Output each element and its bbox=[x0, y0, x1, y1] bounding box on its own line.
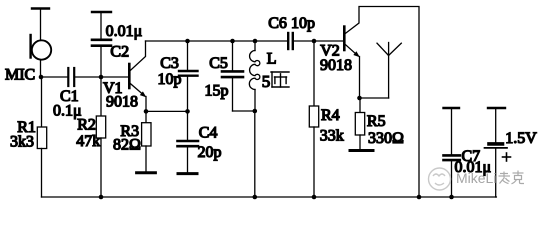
svg-text:15p: 15p bbox=[205, 83, 229, 100]
capacitor C6 bbox=[288, 33, 343, 49]
node C3 top bbox=[185, 39, 190, 44]
node C7 bottom rail bbox=[449, 195, 454, 200]
svg-text:5: 5 bbox=[262, 72, 271, 91]
capacitor C1 bbox=[68, 68, 74, 86]
watermark hanzi mai-ke drawn bbox=[499, 171, 525, 184]
supply terminal T-bar above MIC bbox=[32, 9, 49, 41]
svg-text:C2: C2 bbox=[110, 44, 129, 61]
svg-text:MIC: MIC bbox=[5, 67, 35, 84]
node C5 top bbox=[230, 39, 235, 44]
resistor R4 bbox=[309, 41, 318, 197]
capacitor C5 bbox=[222, 41, 255, 111]
svg-text:330Ω: 330Ω bbox=[368, 130, 404, 147]
supply terminal T-bar above C7 bbox=[444, 108, 460, 155]
svg-text:9018: 9018 bbox=[106, 94, 138, 111]
capacitor C7 bbox=[444, 155, 460, 197]
svg-text:R2: R2 bbox=[77, 117, 96, 134]
wire V1 emitter node to C3/C4 node bbox=[146, 110, 188, 112]
ground bar R3 bbox=[137, 171, 156, 174]
node A (mic/C1/R1 junction) bbox=[39, 75, 44, 80]
wire top rail from V1 collector to C6 bbox=[146, 40, 289, 42]
resistor R3 bbox=[142, 111, 151, 171]
svg-text:R4: R4 bbox=[321, 107, 340, 124]
label + (battery polarity) bbox=[503, 153, 511, 161]
resistor R5 bbox=[355, 98, 364, 149]
node R4 bottom rail bbox=[312, 195, 317, 200]
svg-text:10p: 10p bbox=[291, 15, 315, 32]
wire emitter node to antenna bbox=[360, 97, 389, 99]
supply terminal T-bar above battery bbox=[488, 108, 505, 142]
svg-text:33k: 33k bbox=[320, 128, 344, 145]
svg-text:47k: 47k bbox=[76, 133, 100, 150]
wire C1 to V1 base through node B bbox=[75, 76, 129, 78]
svg-text:L: L bbox=[267, 51, 277, 68]
resistor R1 bbox=[37, 77, 46, 197]
antenna bbox=[377, 43, 401, 99]
svg-text:C6: C6 bbox=[268, 15, 287, 32]
transistor V1 bbox=[129, 41, 146, 111]
svg-text:9018: 9018 bbox=[320, 57, 352, 74]
svg-text:R5: R5 bbox=[367, 113, 386, 130]
node LC tank / bottom rail bbox=[253, 195, 258, 200]
capacitor C2 bbox=[92, 40, 111, 77]
ground bar C4 bbox=[178, 172, 197, 175]
hanzi "za" (turns) drawn bbox=[271, 72, 289, 87]
capacitor C4 bbox=[178, 111, 199, 172]
wire LC tank to bottom rail bbox=[254, 111, 256, 197]
svg-text:C5: C5 bbox=[209, 55, 228, 72]
ground bar R5 bbox=[350, 149, 373, 152]
capacitor C3 bbox=[179, 41, 198, 111]
wire mic node to C1 bbox=[41, 76, 68, 78]
svg-text:MikeLi: MikeLi bbox=[456, 170, 496, 186]
svg-text:82Ω: 82Ω bbox=[113, 137, 141, 154]
battery GB 1.5V bbox=[485, 144, 508, 197]
bottom rail wire bbox=[42, 196, 497, 198]
transistor V2 bbox=[344, 7, 419, 198]
node V1 emitter bbox=[144, 109, 149, 114]
svg-text:0.01μ: 0.01μ bbox=[106, 23, 143, 40]
resistor R2 bbox=[96, 77, 105, 197]
svg-text:C4: C4 bbox=[199, 125, 218, 142]
supply terminal T-bar above C2 bbox=[92, 12, 111, 39]
node L top bbox=[253, 39, 258, 44]
svg-text:C3: C3 bbox=[160, 55, 179, 72]
svg-text:10p: 10p bbox=[158, 71, 182, 88]
node L/C5 bottom bbox=[253, 109, 258, 114]
node V2 emitter bbox=[357, 96, 362, 101]
node C3/C4 bbox=[185, 109, 190, 114]
svg-text:20p: 20p bbox=[198, 144, 222, 161]
microphone MIC bbox=[31, 35, 52, 77]
node B (C1/C2/R2/V1 base junction) bbox=[99, 75, 104, 80]
node V2 collector / bottom rail bbox=[417, 195, 422, 200]
inductor L bbox=[249, 41, 260, 111]
svg-text:1.5V: 1.5V bbox=[505, 130, 537, 147]
watermark logo circle bbox=[429, 168, 451, 190]
svg-text:3k3: 3k3 bbox=[10, 134, 34, 151]
node R2 bottom rail bbox=[99, 195, 104, 200]
node R4 top bbox=[312, 39, 317, 44]
